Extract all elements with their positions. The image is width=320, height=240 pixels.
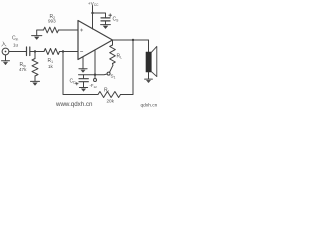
- resistor R1 1k: [44, 49, 60, 55]
- ground (Cd): [79, 87, 87, 89]
- svg-text:CS: CS: [113, 16, 120, 22]
- wire speaker to ground: [148, 72, 150, 79]
- wire Cs to ground: [105, 21, 107, 24]
- op-amp U1: [78, 21, 113, 60]
- wire op-amp aux pin down: [94, 50, 96, 75]
- ground (Cs): [101, 24, 111, 26]
- svg-text:Cin: Cin: [12, 36, 18, 42]
- resistor R2 993: [44, 27, 59, 33]
- op-amp - mark: [80, 51, 82, 53]
- node output feedback: [132, 39, 134, 41]
- wire feedback bottom left: [121, 94, 134, 96]
- wire Cin to R1: [30, 51, 44, 53]
- capacitor Cin: [27, 47, 30, 56]
- terminal stub: [94, 75, 96, 79]
- ground (input jack): [2, 60, 10, 62]
- wire output: [113, 39, 149, 41]
- wire jack to Cin: [9, 51, 26, 53]
- wire Rin to ground: [34, 76, 36, 81]
- switch S1 blade: [110, 65, 114, 72]
- svg-text:S1: S1: [111, 74, 116, 80]
- svg-text:CD: CD: [70, 78, 77, 84]
- node Vcc: [91, 12, 93, 14]
- wire op-amp ground pin: [82, 57, 84, 68]
- wire RF left: [63, 52, 98, 95]
- wire feedback down: [132, 40, 134, 95]
- wire R2 to op-amp non-inverting input: [59, 29, 79, 31]
- node feedback: [62, 50, 64, 52]
- resistor RL stub top: [112, 40, 114, 45]
- wire aux rail: [79, 73, 108, 76]
- svg-text:+VCC: +VCC: [88, 1, 99, 7]
- node after Cin: [34, 50, 36, 52]
- resistor RL: [110, 45, 116, 64]
- resistor Rin 47k: [32, 59, 38, 77]
- svg-text:993: 993: [48, 19, 56, 24]
- op-amp + mark: [80, 29, 82, 31]
- switch S1 circle: [107, 72, 110, 75]
- wire Cd to ground: [83, 82, 85, 87]
- ground (speaker): [145, 78, 153, 80]
- svg-text:20k: 20k: [107, 98, 115, 103]
- ground (R2): [32, 35, 42, 37]
- svg-text:1u: 1u: [13, 43, 19, 48]
- wire R1 to op-amp inverting input: [60, 51, 79, 53]
- capacitor Cs: [101, 18, 110, 21]
- wire Vcc supply: [92, 6, 94, 30]
- svg-text:-F12: -F12: [90, 83, 98, 89]
- wire speaker top: [148, 40, 150, 52]
- input jack J1: [2, 48, 9, 55]
- node aux: [94, 74, 96, 76]
- plus sign Cs: [109, 14, 112, 17]
- wire RL to switch: [112, 64, 114, 66]
- wire ground to R2: [37, 30, 44, 35]
- capacitor Cd: [79, 79, 88, 82]
- ground (op-amp): [79, 68, 87, 70]
- svg-text:Rf: Rf: [104, 87, 109, 93]
- wire Cd stub: [83, 75, 85, 79]
- wire node down: [34, 52, 36, 59]
- resistor RF 20k: [98, 92, 121, 98]
- svg-text:47k: 47k: [19, 67, 27, 72]
- wire jack ground: [5, 55, 7, 60]
- svg-text:www.qdxh.cn: www.qdxh.cn: [55, 101, 93, 108]
- svg-text:1k: 1k: [48, 64, 54, 69]
- terminal circle: [94, 79, 97, 82]
- svg-text:qdxh.cn: qdxh.cn: [141, 103, 158, 109]
- wire Vcc to Cs: [93, 13, 106, 18]
- svg-text:RL: RL: [117, 54, 123, 60]
- speaker LS: [146, 52, 151, 72]
- ground (Rin): [31, 80, 40, 82]
- plus sign Cd: [76, 82, 79, 85]
- svg-text:入: 入: [1, 42, 7, 48]
